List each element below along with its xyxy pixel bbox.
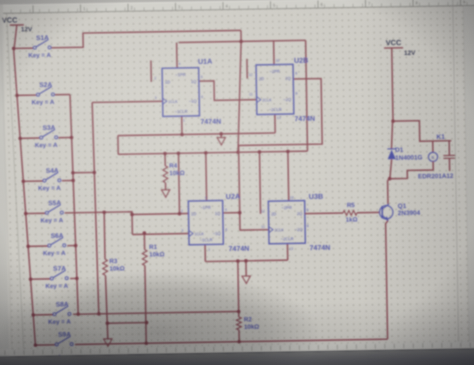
- resistor R5 (1kΩ): [305, 202, 380, 225]
- wire: U2B preset stub: [273, 41, 275, 65]
- left margin strip: [0, 5, 24, 357]
- switch S2A (SPST, Key = A): [15, 82, 55, 107]
- wire: R1 column: [143, 231, 149, 345]
- wire: CLR bus riser: [117, 136, 119, 155]
- wire: coil return: [389, 161, 433, 178]
- wire: diode to collector node: [388, 159, 392, 180]
- right scroll edge: [464, 5, 474, 349]
- switch S5A (SPST, Key = A): [24, 200, 64, 225]
- wire: S5A output / U2A D feed: [65, 212, 133, 236]
- switch S8A (SPST, Key = A): [31, 301, 71, 326]
- transistor Q1 (2N3904): [379, 203, 420, 221]
- switch S4A (SPST, Key = A): [21, 168, 61, 193]
- wire: U2A D tie (vertical): [177, 151, 182, 215]
- wire: U2A clear stub2: [204, 245, 206, 262]
- wire: emitter return: [386, 221, 390, 339]
- wire: R2 column: [236, 259, 241, 343]
- flip-flop U2A (7474N): [181, 192, 250, 254]
- switch S6A (SPST, Key = A): [26, 233, 66, 258]
- wire: collector: [388, 179, 390, 204]
- ground (arrow) below U2A/U3B CLR net: [242, 276, 251, 284]
- wire: U3B clear stub2: [286, 243, 288, 260]
- bottom scrollbar strip: [0, 341, 474, 355]
- wire: U2A preset drop: [204, 151, 208, 201]
- wire: left VCC rail: [13, 25, 35, 346]
- wire: U1A D tie: [150, 60, 152, 81]
- wire: U1A preset stub: [176, 43, 178, 68]
- power VCC (left, 12V): [2, 15, 33, 34]
- wire: rail x=94 (CLK/bus A): [92, 102, 101, 315]
- ground (arrow) below R4: [161, 190, 170, 198]
- resistor R2 (10kΩ): [236, 316, 259, 331]
- ground (arrow) on CLR bus: [217, 137, 226, 145]
- relay K1 (EDR201A12) coil: [417, 134, 454, 181]
- wire: U2B clear stub: [274, 114, 276, 133]
- diode D1 (1N4001G): [387, 146, 422, 162]
- wire: U2B D tie: [246, 59, 248, 79]
- wire: rail x~72: [70, 94, 80, 316]
- wire: bus A (S8A row): [73, 311, 239, 314]
- wire: S2A output: [55, 94, 70, 96]
- switch S3A (SPST, Key = A): [18, 125, 58, 150]
- wire: U2A Q join: [223, 211, 242, 215]
- wire: VCC2 stem: [390, 48, 395, 123]
- flip-flop U2B (7474N): [248, 56, 315, 124]
- wire: CLR-net ground stub: [244, 259, 248, 276]
- wire: PRE net right riser: [306, 40, 308, 151]
- wire: S1A riser and top bus: [51, 30, 243, 157]
- wire: relay feed: [393, 120, 451, 141]
- ruler tick marks and numbers: [0, 0, 474, 13]
- wire: R4 drop: [163, 152, 167, 166]
- wire: CLR net of U2A/U3B: [205, 260, 287, 261]
- wire: U2B Q to U3B CLK: [237, 79, 323, 231]
- resistor R3 (10kΩ): [103, 258, 125, 275]
- switch S9A (SPST, Key = A): [33, 331, 73, 356]
- wire: VCC2 to diode: [391, 121, 393, 149]
- wire: bus B (S9A row / emitter return): [75, 339, 388, 344]
- wire: U2A D stub: [130, 212, 188, 217]
- wire: CLR-bus ground stub: [219, 132, 223, 137]
- wire: PRE bus (mid, feeds R4/U2A/U3B): [118, 151, 307, 154]
- wire: U3B preset drop: [286, 150, 290, 201]
- wire: S7A output: [70, 277, 79, 281]
- wire: CLR bus (U1A/U2B clears): [118, 133, 275, 136]
- wire: PRE net horizontal (to U1A/U2B presets): [179, 40, 306, 42]
- junction node: [239, 40, 243, 44]
- flip-flop U1A (7474N): [154, 57, 221, 127]
- wire: U1A clear stub: [180, 116, 184, 136]
- dark bezel band: [0, 348, 474, 365]
- wire: R3 column: [102, 210, 108, 339]
- wire: R4 to ground: [165, 183, 167, 190]
- flip-flop U3B (7474N): [261, 192, 331, 253]
- wire: cross spur: [71, 171, 96, 175]
- ground below R3 (arrow): [104, 339, 113, 347]
- relay K1 contact: [443, 141, 456, 171]
- wire: S3A output: [58, 136, 73, 140]
- switch S7A (SPST, Key = A): [29, 266, 69, 291]
- wire: S4A output: [62, 179, 75, 183]
- resistor R4 (10kΩ): [163, 162, 185, 182]
- ruler backdrop (top): [0, 0, 474, 14]
- power VCC (right, 12V): [384, 38, 416, 58]
- wire: U3B D tie (vertical): [258, 150, 263, 214]
- wire: U1A clock input: [92, 101, 162, 102]
- wire: U2A clock bus: [132, 233, 188, 236]
- wire: U1A Q to U2B CLK: [199, 80, 257, 100]
- switch S1A (SPST, Key = A): [12, 35, 52, 60]
- wire: S6A output: [67, 244, 77, 248]
- resistor R1 (10kΩ): [142, 244, 165, 266]
- wire: gnd link: [106, 321, 149, 325]
